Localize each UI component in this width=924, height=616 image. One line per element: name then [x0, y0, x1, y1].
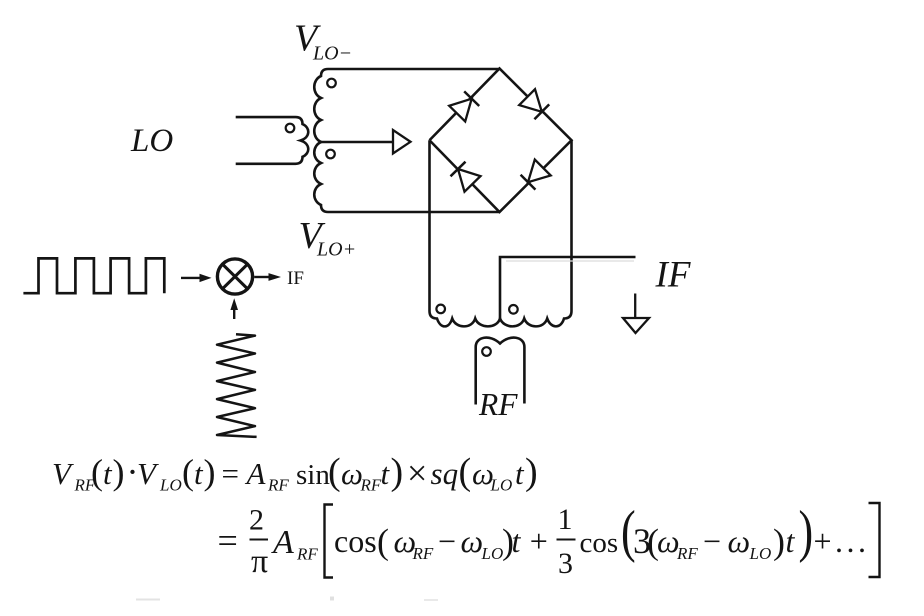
- svg-text:A: A: [245, 456, 267, 491]
- svg-text:t: t: [786, 523, 796, 559]
- svg-text:3: 3: [558, 547, 573, 580]
- svg-text:RF: RF: [478, 387, 518, 422]
- faint scan artifact marks at page bottom: [136, 599, 160, 601]
- diode D2 (top to right): [519, 89, 549, 119]
- svg-text:IF: IF: [655, 255, 691, 296]
- svg-text:RF: RF: [267, 476, 289, 495]
- T1 secondary phasing dot (top): [327, 79, 336, 88]
- svg-text:): ): [113, 452, 125, 492]
- svg-text:): ): [204, 452, 216, 492]
- svg-text:t: t: [194, 456, 204, 491]
- svg-text:LO: LO: [130, 123, 173, 159]
- svg-text:=: =: [218, 521, 238, 561]
- svg-text:+: +: [814, 523, 832, 559]
- svg-text:t: t: [103, 456, 113, 491]
- T2 center tap to IF wire: [500, 257, 636, 319]
- svg-text:): ): [525, 451, 538, 493]
- svg-text:(: (: [377, 522, 389, 562]
- svg-text:sin: sin: [296, 459, 330, 491]
- svg-text:A: A: [271, 524, 294, 561]
- svg-text:cos: cos: [580, 527, 619, 559]
- svg-text:LO: LO: [481, 544, 504, 563]
- ground symbol: [623, 294, 649, 334]
- equation line 1: [52, 451, 538, 495]
- label V_LO-: [294, 18, 352, 65]
- svg-text:RF: RF: [296, 545, 318, 564]
- arrow mixer to IF: [254, 273, 281, 281]
- RF sine zigzag waveform: [217, 334, 257, 437]
- T2 primary phasing dot: [482, 347, 491, 356]
- svg-text:IF: IF: [287, 268, 304, 289]
- svg-text:=: =: [222, 456, 239, 491]
- T2 secondary phasing dot (left): [436, 305, 445, 314]
- svg-text:×: ×: [407, 453, 427, 493]
- svg-text:ω: ω: [728, 523, 751, 559]
- square wave LO waveform: [23, 258, 164, 293]
- svg-text:): ): [391, 451, 404, 493]
- svg-text:V: V: [52, 456, 74, 491]
- LO drive arrowhead (open): [393, 130, 411, 154]
- svg-text:sq: sq: [431, 456, 459, 491]
- T1 secondary phasing dot (below center tap): [326, 150, 335, 159]
- T1 primary phasing dot: [286, 124, 295, 133]
- transformer T2 primary winding (RF): [476, 338, 525, 405]
- T1 center-tap wire: [320, 141, 393, 144]
- svg-text:LO: LO: [749, 544, 772, 563]
- svg-text:...: ...: [835, 523, 870, 559]
- equation line 2: [218, 500, 880, 580]
- svg-text:RF: RF: [676, 544, 698, 563]
- svg-text:cos: cos: [334, 523, 377, 559]
- svg-text:LO−: LO−: [312, 43, 352, 65]
- svg-text:(: (: [91, 452, 103, 492]
- svg-text:−: −: [438, 523, 456, 559]
- mixer symbol: [217, 259, 252, 294]
- svg-text:2: 2: [249, 504, 264, 537]
- arrow RF into mixer: [230, 298, 238, 319]
- transformer T1 secondary winding with leads to diode ring: [314, 69, 499, 212]
- label V_LO+: [299, 215, 357, 261]
- diode D3 (bottom to left): [451, 162, 481, 192]
- svg-text:t: t: [512, 523, 522, 559]
- T2 secondary phasing dot (right of center tap): [509, 305, 518, 314]
- svg-text:(: (: [328, 451, 341, 493]
- svg-text:1: 1: [558, 503, 573, 536]
- diode D1 (left to top): [449, 91, 479, 121]
- svg-text:(: (: [459, 451, 472, 493]
- svg-text:): ): [773, 522, 785, 562]
- svg-text:LO+: LO+: [316, 239, 356, 261]
- svg-text:π: π: [251, 543, 268, 580]
- svg-text:−: −: [703, 523, 721, 559]
- transformer T1 primary winding: [236, 117, 309, 164]
- svg-text:(: (: [182, 452, 194, 492]
- diode ring diamond wires: [430, 69, 572, 213]
- arrow into mixer: [181, 274, 212, 282]
- svg-text:LO: LO: [159, 476, 182, 495]
- svg-text:+: +: [530, 523, 548, 559]
- svg-text:LO: LO: [490, 476, 513, 495]
- svg-text:): ): [799, 500, 814, 564]
- svg-text:ω: ω: [461, 523, 484, 559]
- faint scan artifact under IF wire: [506, 260, 634, 262]
- transformer T2 secondary with leads up to ring (left and right vertical wires): [430, 140, 572, 326]
- svg-text:t: t: [381, 456, 391, 491]
- svg-text:t: t: [515, 456, 525, 491]
- diode D4 (right to bottom): [521, 160, 551, 190]
- svg-text:RF: RF: [412, 544, 434, 563]
- svg-text:RF: RF: [360, 476, 382, 495]
- svg-text:V: V: [137, 456, 159, 491]
